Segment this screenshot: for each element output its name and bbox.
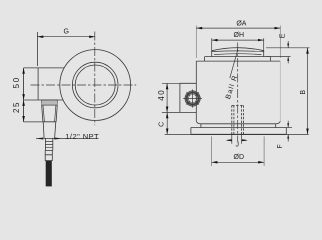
bottom face line with extensions — [165, 133, 309, 135]
dim 1/2 NPT arrowheads — [38, 138, 59, 140]
neck sides — [201, 124, 276, 128]
centerline horizontal — [31, 84, 137, 86]
gland lower body — [43, 122, 56, 139]
dim 50 arrows — [23, 68, 25, 100]
svg-text:25: 25 — [12, 101, 21, 113]
dim 25 arrows — [23, 100, 25, 122]
thread lines — [45, 142, 52, 148]
dim OD ext lines — [212, 136, 265, 166]
dim F line with outside arrows — [287, 121, 289, 142]
hidden thread hole dashed inner — [234, 105, 242, 134]
cable bushing — [45, 150, 52, 160]
dim 40 line — [166, 83, 168, 112]
dim 25 bottom ext line — [24, 121, 43, 123]
svg-text:C: C — [159, 122, 166, 127]
svg-text:ØH: ØH — [234, 32, 245, 39]
dim E top ref line — [266, 47, 310, 49]
dim J arrows — [226, 139, 247, 141]
cable — [46, 161, 52, 187]
dim E line with outside arrows — [287, 41, 289, 63]
svg-text:1/2" NPT: 1/2" NPT — [65, 132, 99, 141]
connector inner circle — [188, 94, 196, 102]
NPT thread stub — [45, 138, 52, 150]
connector ring — [187, 93, 199, 105]
dim E arrowheads — [287, 44, 289, 61]
gland groove band — [42, 100, 58, 105]
dim OA ext lines — [196, 26, 280, 59]
hidden thread hole dashed outer — [232, 105, 244, 134]
hidden thread hole dashed top — [232, 104, 244, 106]
Ball R leader arrowhead — [237, 48, 238, 51]
svg-text:E: E — [280, 33, 287, 38]
dim 40 ext lines — [162, 83, 180, 112]
connector crosshair — [183, 89, 202, 107]
base plate — [191, 128, 286, 135]
dim 1/2 NPT arrows and leader — [36, 138, 99, 140]
dim OD line — [212, 161, 265, 163]
ring inner circle — [75, 65, 115, 105]
cap top face edge arc — [212, 50, 264, 53]
svg-text:50: 50 — [12, 76, 21, 88]
gland groove band bottom edge — [42, 104, 58, 106]
svg-text:ØD: ØD — [234, 154, 245, 161]
neck tangent line — [201, 123, 276, 125]
svg-text:F: F — [277, 144, 284, 148]
body side left — [195, 61, 197, 121]
dim G line — [37, 36, 95, 38]
cap sides — [212, 51, 264, 57]
gland inner lines — [43, 105, 56, 122]
body side right (faint) — [279, 61, 281, 121]
boss (right view) — [180, 83, 196, 112]
dim C line — [166, 112, 168, 134]
dim OH line — [212, 39, 264, 41]
body top face — [196, 60, 280, 62]
gland upper body — [41, 100, 57, 122]
svg-text:40: 40 — [157, 89, 166, 101]
dim 50/25 line — [23, 68, 25, 122]
dim F arrowheads — [287, 123, 289, 138]
dim F top ext line — [286, 127, 292, 129]
dim E bottom ref line — [266, 56, 291, 58]
dim J arrowheads — [228, 139, 246, 141]
svg-text:B: B — [300, 90, 307, 95]
bottom face emphasized segment — [191, 133, 286, 135]
dim OH ext lines — [212, 38, 264, 52]
centerline vertical — [94, 32, 96, 126]
connector circle outer — [185, 91, 200, 106]
outer circle — [60, 50, 131, 121]
dim G extension line — [36, 32, 38, 66]
connector ring tick marks — [187, 92, 199, 104]
shoulder plate — [205, 57, 271, 62]
svg-text:J: J — [235, 142, 239, 149]
ring outer circle — [72, 62, 118, 108]
dim J ext lines — [232, 134, 242, 143]
cap groove edge arc — [214, 53, 261, 56]
dim B line — [307, 48, 309, 135]
bottom fillets — [196, 121, 280, 124]
cap dome ball crown arc — [212, 48, 264, 51]
Ball R leader — [230, 51, 238, 78]
svg-text:ØA: ØA — [236, 20, 246, 27]
dim OA line — [196, 27, 280, 29]
boss (left view) — [24, 68, 65, 100]
centerline vertical right — [237, 43, 239, 142]
svg-text:G: G — [63, 29, 68, 36]
